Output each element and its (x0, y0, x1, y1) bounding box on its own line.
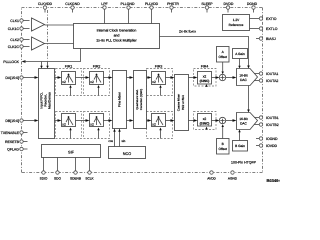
pin CLK1 (10, 19, 29, 23)
wire FIR4 to adder B (212, 119, 220, 122)
wire DAC B out 1 (254, 117, 259, 119)
pin CLKVDD (38, 2, 53, 12)
svg-text:DB[15:0]: DB[15:0] (5, 119, 19, 123)
pin DGND (247, 2, 258, 12)
block FIR4 B (x2 sinc) (198, 114, 212, 127)
dashed region FIR2 A (84, 69, 110, 96)
svg-text:DA[15:0]: DA[15:0] (5, 76, 19, 80)
pin SDENB (70, 158, 81, 181)
block FIR1 B (62, 114, 76, 127)
block A gain (233, 49, 248, 69)
dashed region FIR2 B (84, 112, 110, 139)
pin CLK1C (8, 27, 30, 31)
svg-text:IOUTB1: IOUTB1 (266, 116, 279, 120)
wire DAC A out 1 (254, 73, 259, 75)
chip boundary (dash-dot border) (22, 8, 263, 173)
svg-text:Coarse Mixer: Coarse Mixer (177, 94, 181, 111)
clock arrow into FIR3 B (159, 128, 161, 139)
svg-text:CLK1: CLK1 (10, 19, 19, 23)
pin TXENABLE (1, 131, 28, 135)
block NCO (109, 147, 146, 159)
wire FIR2 to fine mixer A (104, 76, 113, 79)
block coarse mixer (175, 75, 189, 131)
svg-text:2x-8x PLL Clock Multiplier: 2x-8x PLL Clock Multiplier (96, 39, 137, 43)
svg-text:Correction (QMC): Correction (QMC) (140, 89, 143, 110)
svg-text:Fine Mixer: Fine Mixer (118, 91, 122, 107)
svg-text:x2: x2 (90, 123, 94, 127)
svg-text:RESETB: RESETB (5, 140, 20, 144)
svg-text:IOGND: IOGND (266, 137, 278, 141)
pin EXTLO (250, 27, 278, 31)
svg-text:AGND: AGND (228, 176, 238, 180)
pin IOUTB1 (259, 116, 278, 120)
svg-text:SDENB: SDENB (70, 176, 81, 180)
svg-text:DGND: DGND (247, 2, 258, 6)
block FIR4 A (x2 sinc) (198, 65, 212, 84)
pin PLLGND (120, 2, 134, 23)
wire FIR3 to coarse mixer A (166, 76, 175, 79)
pin SDIO (40, 158, 48, 181)
adder B (219, 117, 225, 123)
wire QMC to FIR3 A (147, 76, 152, 79)
pin DA[15:0] (5, 76, 38, 80)
wire fine mixer to QMC A (127, 76, 134, 79)
wire DAC B out 2 (254, 124, 259, 126)
svg-text:CLK2C: CLK2C (8, 45, 20, 49)
dashed region FIR3 A (147, 69, 173, 96)
clock input amp U2 (32, 37, 45, 50)
pin AVDD (207, 171, 216, 181)
svg-text:B0349-01: B0349-01 (267, 178, 281, 182)
svg-text:FIR2: FIR2 (93, 65, 101, 69)
pin PLLVDD (145, 2, 159, 23)
wire NCO cos to fine mixer (108, 129, 115, 147)
svg-text:PHSTR: PHSTR (167, 2, 179, 6)
svg-text:SDIO: SDIO (40, 176, 48, 180)
pin CLK2 (10, 38, 29, 42)
pin RESETB (5, 140, 28, 144)
wire amp2 to clock block (45, 43, 74, 45)
pin DB[15:0] (5, 119, 38, 123)
svg-text:Internal Clock Generation: Internal Clock Generation (97, 29, 137, 33)
block FIR3 A (152, 65, 166, 85)
svg-text:and: and (114, 34, 120, 38)
svg-text:EXTLO: EXTLO (266, 27, 278, 31)
wire clock output 2x-8x fDATA (160, 30, 250, 69)
wire adder to DAC A (226, 76, 237, 79)
svg-text:AVDD: AVDD (207, 176, 216, 180)
svg-text:TXENABLE: TXENABLE (1, 131, 20, 135)
svg-text:fS/2 or fS/4: fS/2 or fS/4 (181, 95, 185, 110)
pin PHSTR (167, 2, 179, 12)
wire FIR2 to fine mixer B (104, 119, 113, 122)
pin IOVDD (256, 144, 278, 148)
pin PLLLOCK (output) (3, 49, 80, 64)
dashed region FIR4 A (194, 69, 217, 87)
svg-text:SCLK: SCLK (85, 176, 94, 180)
svg-text:(SINC): (SINC) (200, 79, 210, 83)
svg-text:CLK1C: CLK1C (8, 27, 20, 31)
wire FIR3 to coarse mixer B (166, 119, 175, 122)
dashed region FIR3 B (147, 112, 173, 139)
wire FIR1 to FIR2 A (76, 76, 90, 79)
svg-text:(SINC): (SINC) (200, 122, 210, 126)
pin CLK2C (8, 45, 30, 49)
pin AGND (228, 171, 238, 181)
block SIF (42, 145, 101, 158)
clock arrow into FIR4 B (205, 127, 208, 130)
svg-text:Offset: Offset (218, 55, 227, 59)
svg-text:FIR3: FIR3 (155, 65, 163, 69)
block FIR2 A (90, 65, 104, 85)
block internal clock generation / PLL multiplier (74, 24, 160, 49)
wire FIFO to FIR1 A (55, 76, 62, 79)
svg-text:SDO: SDO (54, 176, 61, 180)
wire coarse mixer to FIR4 A (189, 76, 198, 79)
svg-text:2x-8x fDATA: 2x-8x fDATA (179, 30, 196, 34)
svg-text:FIR1: FIR1 (65, 65, 73, 69)
svg-text:x2: x2 (152, 123, 156, 127)
pin SCLK (85, 158, 94, 181)
svg-text:NCO: NCO (123, 152, 131, 156)
svg-text:x2: x2 (90, 80, 94, 84)
svg-text:CLK2: CLK2 (10, 38, 19, 42)
svg-text:B Gain: B Gain (235, 144, 245, 148)
wire DAC A out 2 (254, 80, 259, 82)
svg-text:IOVDD: IOVDD (266, 144, 278, 148)
svg-text:IOUTA2: IOUTA2 (266, 79, 278, 83)
svg-text:A Gain: A Gain (235, 52, 245, 56)
wire NCO sin to fine mixer (118, 129, 125, 147)
wire adder to DAC B (226, 119, 237, 122)
block A offset (217, 47, 230, 75)
wire clock drop to FIFO (x41) (40, 62, 42, 69)
svg-text:IOUTB2: IOUTB2 (266, 123, 279, 127)
wire FIFO to FIR1 B (55, 119, 62, 122)
svg-text:16-Bit: 16-Bit (239, 74, 247, 78)
block B offset (217, 124, 230, 154)
clock arrow into FIR4 A (205, 84, 208, 87)
svg-text:x2: x2 (203, 75, 207, 79)
svg-text:Reference: Reference (229, 23, 244, 27)
block QMC (134, 71, 147, 129)
svg-text:100-Pin HTQFP: 100-Pin HTQFP (231, 161, 257, 165)
svg-text:Mux/Demux: Mux/Demux (48, 92, 52, 109)
svg-text:FIR4: FIR4 (201, 65, 209, 69)
dashed region FIR1 B (56, 112, 82, 139)
pin LPF (101, 2, 107, 23)
wire amp1 to clock block (45, 24, 74, 26)
wire DAC A clock to DAC B (247, 86, 250, 113)
svg-text:Quadrature Mod.: Quadrature Mod. (136, 89, 139, 110)
pin BIASJ (256, 37, 276, 41)
DAC A (16-bit) (237, 69, 258, 86)
wire QMC to FIR3 B (147, 119, 152, 122)
clock input amp U1 (32, 18, 45, 31)
svg-text:EXTIO: EXTIO (266, 17, 277, 21)
svg-text:1.2V: 1.2V (233, 18, 240, 22)
pin EXTIO (250, 17, 277, 21)
clock arrow into FIR1 A (69, 85, 71, 96)
wire FIR4 to adder A (212, 76, 220, 79)
block FIR2 B (90, 114, 104, 127)
svg-text:DVDD: DVDD (224, 2, 234, 6)
DAC B (16-bit) (237, 113, 258, 130)
svg-text:sin: sin (122, 139, 126, 143)
pin SLEEP (201, 2, 213, 12)
clock arrow into FIR2 B (97, 128, 99, 139)
clock arrow into FIR2 A (97, 85, 99, 96)
pin IOUTA2 (259, 79, 278, 83)
clock arrow into FIR3 A (159, 85, 161, 96)
dashed region FIR1 A (56, 69, 82, 96)
pin DVDD (224, 2, 234, 12)
svg-text:x2: x2 (152, 80, 156, 84)
svg-text:x2: x2 (203, 117, 207, 121)
block B gain (233, 130, 248, 152)
svg-text:QFLAG: QFLAG (7, 147, 19, 151)
svg-text:x2: x2 (62, 123, 66, 127)
pin QFLAG (7, 147, 27, 151)
svg-text:16-Bit: 16-Bit (239, 117, 247, 121)
pin IOUTA1 (259, 72, 278, 76)
svg-text:PLLGND: PLLGND (120, 2, 134, 6)
block FIR3 B (152, 114, 166, 127)
svg-text:B: B (222, 142, 224, 146)
dashed region FIR4 B (194, 112, 217, 130)
block FIR1 A (62, 65, 76, 85)
adder A (219, 74, 225, 80)
svg-text:SIF: SIF (68, 151, 75, 155)
block 1.2V reference (223, 15, 250, 31)
wire fine mixer to QMC B (127, 119, 134, 122)
clock arrow into FIR1 B (69, 128, 71, 139)
pin IOUTB2 (259, 123, 278, 127)
block input FIFO (39, 69, 55, 139)
wire clock drop to FIFO (x47, dash-dot from top) (46, 10, 48, 69)
svg-text:IOUTA1: IOUTA1 (266, 72, 278, 76)
wire FIR1 to FIR2 B (76, 119, 90, 122)
svg-text:PLLLOCK: PLLLOCK (3, 60, 19, 64)
pin CLKGND (65, 2, 80, 12)
svg-text:x2: x2 (62, 80, 66, 84)
block fine mixer (113, 71, 127, 129)
svg-text:BIASJ: BIASJ (266, 37, 276, 41)
svg-text:cos: cos (108, 139, 113, 143)
pin IOGND (256, 137, 278, 141)
svg-text:DAC: DAC (240, 122, 247, 126)
wire coarse mixer to FIR4 B (189, 119, 198, 122)
svg-text:Offset: Offset (218, 147, 227, 151)
svg-text:DAC: DAC (240, 78, 247, 82)
pin SDO (54, 158, 61, 181)
